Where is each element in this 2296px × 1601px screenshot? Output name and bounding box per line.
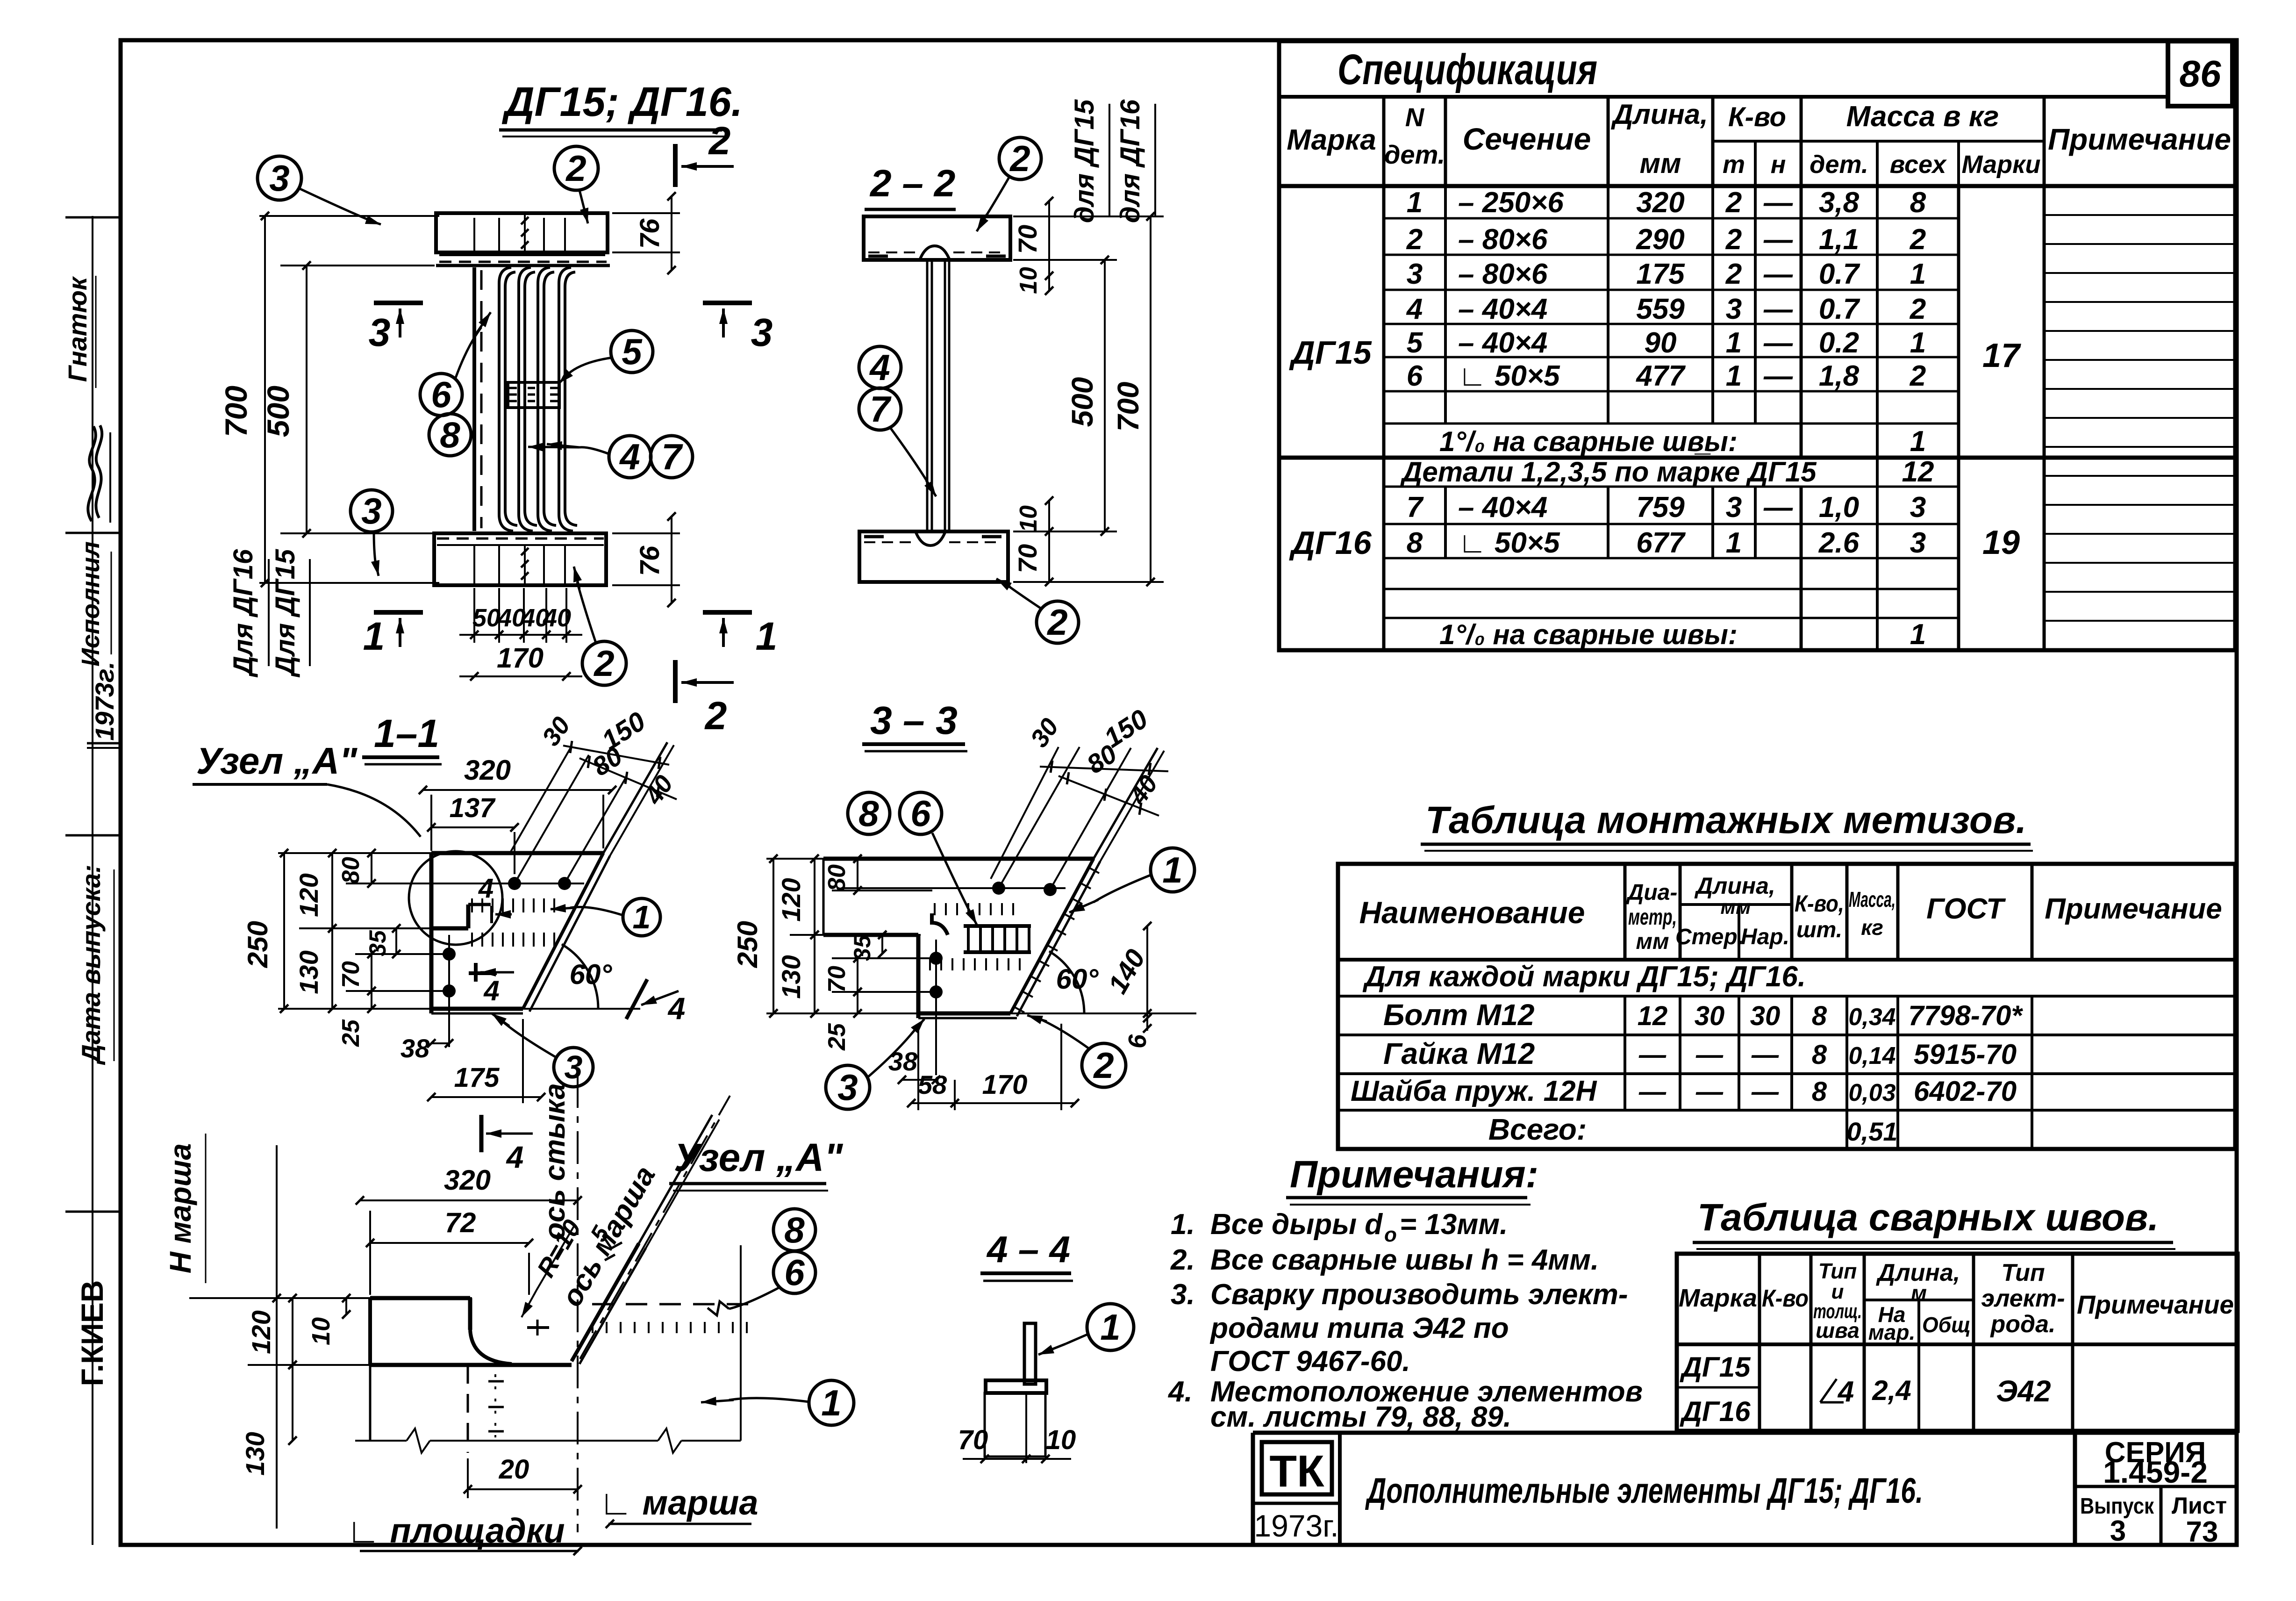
2-2 leader 2 top: [977, 177, 1009, 231]
section mark 1 (right): [703, 612, 777, 658]
svg-text:Все сварные швы h = 4мм.: Все сварные швы h = 4мм.: [1210, 1244, 1599, 1276]
svg-text:ГОСТ 9467-60.: ГОСТ 9467-60.: [1210, 1345, 1410, 1378]
svg-text:1: 1: [1910, 618, 1926, 651]
sidebar signature: [88, 425, 110, 523]
svg-text:Общ: Общ: [1922, 1313, 1971, 1337]
4-4 dims 70/10: [958, 1425, 1076, 1463]
uzel A callout 8: [773, 1209, 815, 1251]
svg-text:38: 38: [401, 1034, 430, 1063]
section mark 2 (bottom right): [675, 660, 734, 738]
3-3 detail 6/8 angle: [930, 903, 1031, 970]
svg-text:120: 120: [294, 873, 323, 917]
1-1 weld flag 4 (upper): [478, 873, 512, 923]
svg-text:—: —: [1695, 1077, 1724, 1107]
svg-text:1: 1: [1407, 187, 1423, 219]
svg-text:6: 6: [1123, 1034, 1152, 1048]
svg-text:3,8: 3,8: [1819, 187, 1860, 219]
weld table grid: [1677, 1254, 2238, 1431]
uzel A title: [669, 1135, 843, 1191]
sidebar ticks: [65, 217, 121, 1212]
svg-text:4: 4: [1837, 1376, 1854, 1408]
svg-text:– 80×6: – 80×6: [1458, 223, 1548, 256]
uzel A marsh slant edge: [572, 1115, 719, 1364]
svg-text:Н марша: Н марша: [164, 1143, 197, 1274]
svg-text:6402-70: 6402-70: [1914, 1076, 2017, 1107]
4-4 cap plate: [986, 1380, 1046, 1393]
leader 6 to web: [456, 312, 491, 378]
3-3 leader 3: [867, 1019, 924, 1077]
svg-text:—: —: [1751, 1077, 1779, 1107]
sidebar label G.KIEV: [75, 1280, 109, 1386]
1-1 callout 1: [623, 898, 660, 936]
svg-text:19: 19: [1982, 524, 2020, 561]
uzel A right edge line: [740, 1245, 742, 1441]
dim 76 (bottom flange): [612, 512, 680, 607]
svg-text:10: 10: [1046, 1425, 1076, 1455]
3-3 bolts: [841, 882, 1066, 1075]
svg-text:500: 500: [261, 386, 295, 437]
3-3 callout 3: [826, 1065, 870, 1109]
svg-text:т: т: [1723, 151, 1745, 179]
svg-text:—: —: [1638, 1040, 1667, 1070]
svg-text:73: 73: [2186, 1516, 2218, 1548]
detail 2: top flange plate: [436, 213, 610, 266]
1-1 slant extension lines: [509, 742, 674, 883]
svg-text:2: 2: [1725, 187, 1742, 219]
sidebar label Ispolnil: [77, 541, 111, 667]
svg-text:родами типа Э42 по: родами типа Э42 по: [1209, 1312, 1509, 1344]
svg-text:250: 250: [732, 921, 763, 968]
svg-text:130: 130: [240, 1432, 270, 1475]
svg-text:3: 3: [361, 490, 381, 531]
1-1 dims 80/35/70/25: [337, 849, 446, 1047]
svg-text:N: N: [1405, 102, 1425, 132]
svg-text:170: 170: [497, 642, 544, 674]
svg-text:8: 8: [1910, 187, 1926, 219]
metiz table grid: [1338, 864, 2235, 1149]
svg-text:2: 2: [1046, 602, 1067, 643]
svg-text:70: 70: [1013, 544, 1042, 573]
svg-text:2: 2: [708, 119, 731, 163]
svg-text:дет.: дет.: [1384, 140, 1445, 169]
svg-text:Спецификация: Спецификация: [1338, 46, 1597, 93]
uzel A R=10 leader: [522, 1215, 587, 1317]
svg-text:70: 70: [823, 966, 851, 993]
svg-text:0,34: 0,34: [1848, 1004, 1895, 1031]
specification table title: [1338, 46, 1597, 93]
svg-text:К-во: К-во: [1762, 1285, 1809, 1312]
svg-text:Всего:: Всего:: [1488, 1113, 1587, 1146]
callout 4: [609, 436, 651, 478]
svg-text:Все дыры d: Все дыры d: [1210, 1208, 1383, 1241]
sidebar label 1973g: [90, 661, 119, 740]
uzel A weld tick row: [527, 1320, 747, 1335]
svg-text:см. листы 79, 88, 89.: см. листы 79, 88, 89.: [1210, 1401, 1511, 1433]
1-1 bolts: [439, 877, 584, 1047]
svg-text:Узел „А": Узел „А": [196, 740, 358, 782]
svg-text:60°: 60°: [1056, 963, 1099, 995]
svg-text:1,0: 1,0: [1819, 491, 1859, 524]
svg-text:Тип: Тип: [2001, 1259, 2045, 1286]
1-1 leader 1: [551, 904, 623, 915]
uzel A dashed bolt line: [468, 1365, 504, 1453]
svg-text:кг: кг: [1861, 915, 1883, 940]
leader 2 bottom: [573, 567, 596, 643]
svg-text:3: 3: [1407, 258, 1423, 290]
svg-text:1: 1: [1910, 425, 1926, 458]
svg-text:2: 2: [1910, 293, 1926, 325]
svg-text:Длина,: Длина,: [1610, 99, 1708, 130]
svg-text:2: 2: [593, 643, 614, 684]
svg-text:К-во,: К-во,: [1795, 890, 1844, 917]
svg-text:2: 2: [1910, 223, 1926, 256]
svg-text:Примечание: Примечание: [2045, 893, 2222, 925]
svg-text:ГОСТ: ГОСТ: [1926, 893, 2006, 925]
specification table grid: [1279, 41, 2235, 650]
1-1 dims 120/130: [294, 849, 435, 1013]
svg-text:ТК: ТК: [1269, 1446, 1324, 1496]
svg-text:10: 10: [307, 1317, 335, 1345]
svg-text:677: 677: [1636, 527, 1686, 559]
spec table data: [1289, 187, 2021, 651]
2-2 leader 7: [890, 428, 936, 496]
svg-text:58: 58: [918, 1070, 947, 1099]
svg-text:0,03: 0,03: [1848, 1079, 1895, 1106]
svg-text:7: 7: [870, 388, 892, 430]
notes title: [1286, 1153, 1538, 1205]
svg-text:70: 70: [1013, 225, 1042, 254]
svg-text:76: 76: [635, 546, 665, 576]
1-1 callout 3: [554, 1048, 593, 1087]
uzel A L marsha label: [599, 1483, 758, 1528]
callout 5: [611, 330, 653, 373]
svg-text:—: —: [1763, 223, 1793, 256]
svg-text:0.7: 0.7: [1819, 293, 1860, 325]
svg-text:мм: мм: [1720, 896, 1751, 919]
svg-text:шва: шва: [1816, 1318, 1860, 1343]
svg-text:130: 130: [776, 955, 806, 998]
svg-text:Болт М12: Болт М12: [1383, 998, 1534, 1032]
uzel A leader 1: [701, 1397, 809, 1406]
svg-text:1: 1: [756, 614, 778, 658]
svg-text:8: 8: [1812, 1001, 1827, 1031]
flange inner verticals: [474, 218, 565, 583]
svg-text:477: 477: [1635, 360, 1686, 392]
svg-text:Таблица монтажных метизов.: Таблица монтажных метизов.: [1425, 799, 2026, 841]
svg-text:700: 700: [1111, 382, 1145, 432]
svg-text:Масса,: Масса,: [1849, 887, 1895, 912]
dim chain 50 40 40 40: [459, 588, 582, 643]
svg-text:4: 4: [506, 1140, 524, 1174]
svg-text:К-во: К-во: [1728, 102, 1786, 132]
uzel A callout 1: [809, 1380, 854, 1425]
svg-text:70: 70: [958, 1425, 988, 1455]
svg-text:Для ДГ16: Для ДГ16: [228, 549, 258, 678]
svg-text:1: 1: [1910, 258, 1926, 290]
leader 2: [579, 190, 588, 223]
svg-text:Марки: Марки: [1961, 151, 2040, 179]
dim 76 (top flange): [612, 192, 680, 274]
svg-text:1°/₀ на сварные швы:: 1°/₀ на сварные швы:: [1439, 619, 1738, 650]
uzel A hidden lines (detail 6/8): [592, 1303, 749, 1306]
svg-text:25: 25: [823, 1023, 851, 1051]
svg-text:метр,: метр,: [1628, 905, 1677, 930]
svg-text:320: 320: [444, 1164, 491, 1196]
4-4 callout 1: [1087, 1304, 1134, 1350]
svg-text:1: 1: [363, 614, 385, 658]
3-3 callout 6: [900, 792, 942, 834]
svg-text:4: 4: [619, 436, 640, 477]
3-3 dim 250: [732, 854, 923, 1018]
svg-text:ДГ16: ДГ16: [1680, 1396, 1751, 1427]
svg-text:20: 20: [499, 1454, 529, 1485]
2-2 dim 500: [1014, 256, 1117, 536]
svg-text:10: 10: [1015, 267, 1042, 294]
svg-text:Для каждой марки ДГ15; Д: Для каждой марки ДГ15; ДГ16.: [1362, 961, 1806, 993]
svg-text:1973г.: 1973г.: [90, 661, 119, 740]
2-2 dim 70 bottom: [1013, 527, 1057, 586]
svg-text:12: 12: [1902, 456, 1934, 488]
3-3 callout 1: [1151, 848, 1194, 892]
1-1 slant dim chain 150: [563, 706, 669, 769]
svg-text:ДГ15: ДГ15: [1289, 334, 1372, 371]
svg-text:∟ площадки: ∟ площадки: [346, 1511, 565, 1550]
uzel A dim 130: [240, 1361, 297, 1476]
metiz data rows: [1351, 961, 2023, 1146]
svg-text:137: 137: [450, 793, 496, 823]
svg-text:50: 50: [472, 604, 501, 632]
1-1 section flag 4 (bottom): [481, 1115, 533, 1174]
svg-text:8: 8: [440, 414, 460, 455]
dim 700 (left): [219, 212, 439, 587]
title text: [1365, 1471, 1923, 1511]
section 4-4 title: [980, 1228, 1073, 1281]
svg-text:Диа-: Диа-: [1626, 880, 1678, 905]
svg-text:Для ДГ15: Для ДГ15: [270, 549, 300, 678]
detail 5 small plate: [508, 382, 559, 408]
svg-text:мм: мм: [1636, 929, 1669, 954]
svg-text:5: 5: [622, 331, 643, 372]
svg-text:Таблица сварных швов.: Таблица сварных швов.: [1697, 1196, 2159, 1239]
svg-text:Марка: Марка: [1679, 1284, 1757, 1312]
label Dlya DG16: [228, 549, 269, 678]
svg-text:∟ 50×5: ∟ 50×5: [1458, 360, 1560, 392]
callout 3 (top flange): [257, 156, 301, 200]
svg-text:8: 8: [858, 793, 879, 834]
3-3 dims 120/130: [776, 854, 921, 1018]
svg-text:н: н: [1771, 151, 1786, 179]
svg-text:Сечение: Сечение: [1463, 122, 1591, 156]
callout 2 (top flange): [554, 146, 598, 190]
1-1 slant dim chain 30/80/40: [536, 712, 679, 810]
uzel A callout 6: [773, 1251, 815, 1293]
section 1-1 title: [362, 711, 442, 764]
svg-text:2 – 2: 2 – 2: [869, 162, 955, 205]
uzel A datum line: [189, 1297, 472, 1299]
2-2 label dlya DG15: [1069, 99, 1109, 223]
uzel A dim 20: [464, 1454, 582, 1498]
uzel A H marsha label: [164, 1134, 206, 1283]
3-3 slant dims 30/80/40: [1025, 713, 1163, 816]
3-3 slant extension lines: [991, 747, 1164, 890]
svg-text:17: 17: [1982, 337, 2021, 374]
2-2 callout 4: [859, 346, 901, 388]
uzel A dims 120/10: [246, 1294, 369, 1369]
svg-text:6: 6: [784, 1252, 805, 1293]
1-1 dim 137: [427, 793, 519, 874]
svg-text:ось стыка: ось стыка: [539, 1083, 571, 1240]
note 4: [1167, 1376, 1643, 1433]
svg-text:Тип: Тип: [1818, 1259, 1857, 1283]
svg-text:4.: 4.: [1167, 1376, 1193, 1408]
svg-text:Лист: Лист: [2172, 1493, 2227, 1519]
svg-text:3: 3: [1726, 491, 1742, 524]
1-1 plate outline detail 1: [431, 853, 610, 1013]
svg-text:Длина,: Длина,: [1694, 873, 1775, 899]
svg-text:2.: 2.: [1170, 1244, 1195, 1276]
title block frame: [1253, 1433, 2237, 1545]
svg-text:2: 2: [1725, 223, 1742, 256]
svg-text:25: 25: [337, 1019, 365, 1047]
svg-text:30: 30: [1750, 1001, 1781, 1031]
svg-text:—: —: [1763, 360, 1793, 392]
callout 8: [429, 414, 471, 456]
4-4 lower box: [985, 1393, 1045, 1463]
svg-text:80: 80: [823, 864, 851, 891]
svg-text:559: 559: [1636, 293, 1685, 325]
1-1 dim 175: [427, 1019, 545, 1103]
svg-text:700: 700: [219, 386, 253, 437]
4-4 leader 1: [1038, 1335, 1087, 1355]
svg-text:175: 175: [454, 1063, 500, 1093]
3-3 dim 140: [1102, 922, 1152, 1018]
leader 4/7 to web: [528, 441, 609, 454]
uzel A dim 5 (slant): [585, 1221, 622, 1260]
2-2 callout 2 bottom: [1037, 601, 1079, 643]
svg-text:0.7: 0.7: [1819, 258, 1860, 290]
svg-text:Примечание: Примечание: [2077, 1290, 2234, 1319]
svg-text:– 40×4: – 40×4: [1458, 327, 1547, 359]
1-1 flag 4 (right of 60): [626, 979, 685, 1026]
3-3 callout 8: [848, 792, 890, 834]
detail 4/7 bent web straps: [499, 267, 577, 531]
svg-text:4: 4: [667, 991, 686, 1026]
section mark 2 (top right): [675, 119, 734, 187]
svg-text:1: 1: [1100, 1307, 1120, 1348]
uzel A bottom boundary with breaks: [355, 1429, 741, 1453]
sidebar label Gnatyuk: [63, 276, 96, 388]
uzel A dim 72: [366, 1207, 533, 1295]
svg-text:Исполнил: Исполнил: [77, 541, 105, 667]
sidebar divider line: [92, 216, 93, 1545]
svg-text:3: 3: [269, 158, 289, 199]
section 3-3 title: [862, 698, 967, 751]
svg-text:80: 80: [337, 857, 365, 884]
svg-text:130: 130: [294, 950, 323, 994]
TK box: [1253, 1433, 1340, 1545]
svg-text:—: —: [1763, 491, 1793, 524]
uzel A L ploshchadki label: [346, 1511, 582, 1555]
svg-text:Гайка М12: Гайка М12: [1383, 1037, 1535, 1070]
svg-text:2: 2: [1910, 360, 1926, 392]
svg-text:1: 1: [1910, 327, 1926, 359]
leader 5 to detail5 plate: [559, 358, 612, 383]
svg-text:4: 4: [478, 873, 494, 904]
svg-text:ДГ15; ДГ16.: ДГ15; ДГ16.: [501, 79, 743, 125]
svg-text:759: 759: [1636, 491, 1685, 524]
2-2 leader 2 bottom: [996, 579, 1041, 609]
svg-text:12: 12: [1638, 1001, 1668, 1031]
svg-text:8: 8: [1812, 1077, 1827, 1107]
svg-text:8: 8: [784, 1209, 805, 1250]
3-3 dims 38/58/170: [888, 1024, 1079, 1110]
detail 2: bottom flange plate: [434, 533, 606, 585]
svg-text:6: 6: [1407, 360, 1423, 392]
section mark 1 (left): [363, 612, 423, 658]
uzel A H marsha dim line: [272, 1145, 281, 1529]
svg-text:3: 3: [1726, 293, 1742, 325]
svg-text:1,1: 1,1: [1819, 223, 1859, 256]
callout 3 (bottom flange): [350, 490, 393, 532]
svg-text:—: —: [1763, 327, 1793, 359]
svg-text:7: 7: [661, 436, 683, 477]
dim 500 (left): [261, 261, 435, 538]
svg-text:500: 500: [1066, 377, 1099, 427]
section 2-2 title: [865, 162, 958, 216]
2-2 top flange: [864, 216, 1010, 260]
svg-text:76: 76: [635, 218, 665, 249]
3-3 dims 80/35/70/25: [823, 854, 932, 1051]
svg-text:3 – 3: 3 – 3: [870, 698, 958, 742]
3-3 angle 60: [1010, 951, 1196, 1013]
3-3 slant dim chain 150: [1040, 704, 1168, 775]
uzel A dim 320: [356, 1164, 582, 1295]
1-1 angle 60: [523, 944, 640, 1009]
svg-text:Узел „А": Узел „А": [674, 1135, 843, 1179]
svg-text:60°: 60°: [570, 959, 613, 990]
svg-text:Стер.: Стер.: [1675, 925, 1744, 949]
svg-text:4: 4: [483, 975, 499, 1006]
svg-text:для ДГ15: для ДГ15: [1069, 99, 1100, 223]
svg-text:2: 2: [1725, 258, 1742, 290]
svg-text:—: —: [1751, 1040, 1779, 1070]
svg-text:5: 5: [1407, 327, 1423, 359]
title DG15 DG16: [499, 79, 743, 136]
svg-text:320: 320: [464, 754, 511, 786]
2-2 dim 10 bottom: [1015, 496, 1053, 532]
svg-text:1: 1: [1726, 527, 1742, 559]
uzel A label: [193, 740, 421, 837]
svg-text:7798-70*: 7798-70*: [1908, 1000, 2023, 1031]
uzel A circle on 1-1: [409, 851, 502, 945]
svg-text:Примечание: Примечание: [2048, 122, 2231, 156]
svg-text:Гнатюк: Гнатюк: [63, 276, 92, 382]
svg-text:70: 70: [337, 961, 365, 988]
callout 2 (bottom flange): [582, 641, 626, 685]
svg-text:– 40×4: – 40×4: [1458, 293, 1547, 325]
svg-text:320: 320: [1636, 187, 1684, 219]
svg-text:Наименование: Наименование: [1359, 895, 1585, 930]
svg-text:3: 3: [565, 1049, 583, 1085]
svg-text:2: 2: [1009, 138, 1030, 179]
note 1: [1171, 1208, 1508, 1246]
svg-text:0,51: 0,51: [1847, 1117, 1898, 1146]
svg-text:120: 120: [246, 1310, 276, 1354]
4-4 detail 1 web plate: [1024, 1323, 1036, 1384]
svg-text:86: 86: [2180, 53, 2221, 94]
svg-text:0.2: 0.2: [1819, 327, 1859, 359]
svg-text:Шайба пруж. 12Н: Шайба пруж. 12Н: [1351, 1075, 1597, 1107]
